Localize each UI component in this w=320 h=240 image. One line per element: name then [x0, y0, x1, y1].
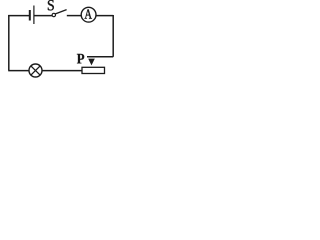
- label S: [48, 0, 54, 10]
- lamp X diagonal 2: [31, 66, 40, 75]
- wire top-left horizontal: [8, 15, 29, 17]
- battery short plate (negative): [29, 10, 31, 21]
- wire switch to ammeter: [67, 15, 81, 17]
- bottom wire lamp to rheostat: [42, 70, 83, 72]
- wire ammeter to top-right corner: [96, 15, 113, 17]
- rheostat slider arrow: [88, 59, 95, 66]
- left vertical wire: [8, 15, 10, 70]
- bottom wire corner to lamp: [8, 70, 29, 72]
- switch S pivot circle: [52, 13, 55, 16]
- battery long plate (positive): [33, 6, 35, 25]
- wire battery to switch: [35, 15, 53, 17]
- rheostat P body rectangle: [82, 67, 105, 73]
- ammeter letter A: [85, 9, 92, 18]
- label P: [77, 54, 84, 64]
- switch S lever (open): [55, 10, 66, 14]
- lamp X diagonal 1: [31, 66, 40, 75]
- wire corner to slider: [87, 56, 113, 58]
- right vertical wire: [112, 15, 114, 57]
- ammeter A circle: [81, 7, 96, 22]
- lamp circle: [29, 64, 42, 77]
